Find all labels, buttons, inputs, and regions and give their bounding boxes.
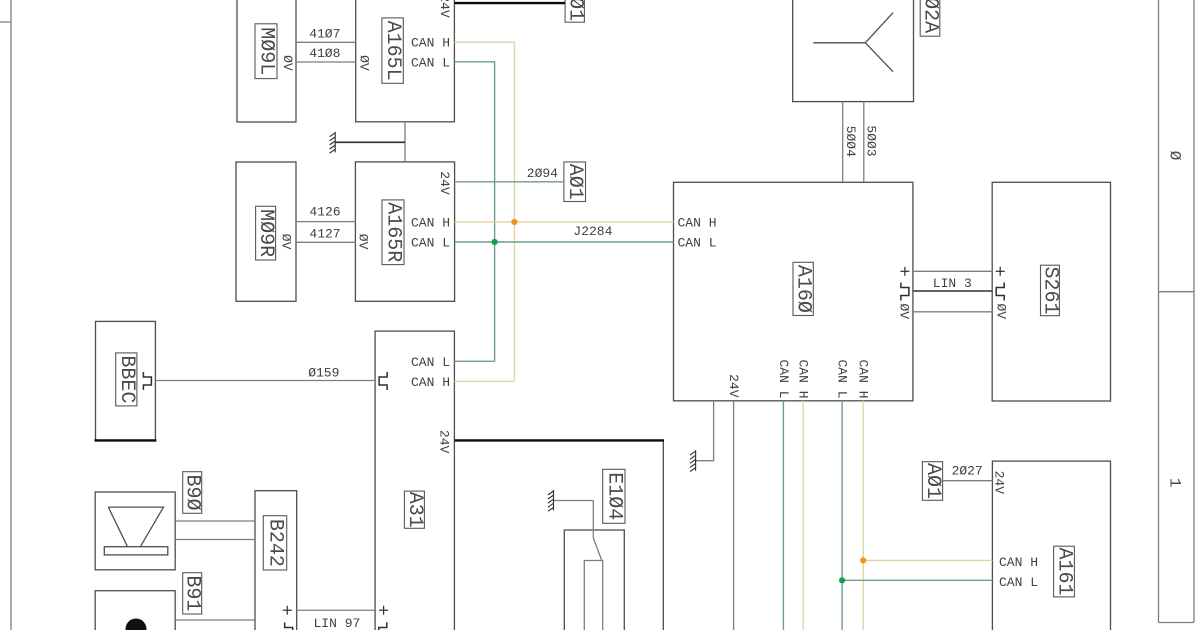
svg-text:24V: 24V: [726, 374, 741, 398]
svg-text:MØ9R: MØ9R: [254, 209, 277, 257]
wire 4127: [296, 241, 355, 243]
component A165R box: [355, 162, 454, 301]
B91 horn symbol filled circle: [126, 619, 147, 630]
wire A165L bottom to A165R top: [404, 122, 406, 162]
svg-text:2Ø94: 2Ø94: [527, 166, 558, 181]
wire CAN H A165L (yellow): [454, 42, 514, 381]
svg-text:A31: A31: [403, 492, 426, 528]
plus A31 LIN97: [379, 606, 388, 615]
svg-text:CAN H: CAN H: [411, 36, 450, 51]
label B90: [181, 472, 204, 514]
component B242 box: [255, 491, 297, 630]
svg-text:AØ1: AØ1: [921, 463, 944, 499]
label M09R: [254, 206, 277, 260]
svg-text:A161: A161: [1053, 548, 1076, 596]
antenna symbol: [813, 13, 893, 72]
component S261 box: [992, 182, 1110, 401]
plus A160: [900, 267, 909, 276]
plus B242: [283, 606, 292, 615]
svg-text:E1Ø4: E1Ø4: [602, 472, 625, 520]
svg-text:B91: B91: [181, 575, 204, 611]
wire 24V A165L to A01 (black): [454, 2, 565, 4]
svg-text:2Ø27: 2Ø27: [952, 464, 983, 479]
svg-text:B242: B242: [264, 519, 287, 567]
wire CAN H down 2 (yellow): [862, 401, 864, 630]
junction CAN L green dot: [492, 239, 498, 245]
svg-text:CAN L: CAN L: [835, 359, 850, 398]
speaker symbol B90: [104, 507, 168, 555]
svg-text:5ØØ4: 5ØØ4: [843, 126, 858, 157]
label E104: [602, 469, 625, 523]
junction CAN L A161 green dot: [839, 577, 845, 583]
ground stem E104: [554, 500, 594, 502]
wire 24V A31 drop: [662, 442, 664, 630]
junction CAN H orange dot: [511, 219, 517, 225]
svg-text:ØV: ØV: [280, 55, 295, 71]
wire 2094 A165R to A01 (teal): [455, 181, 564, 183]
svg-text:CAN L: CAN L: [999, 575, 1038, 590]
plus S261: [996, 267, 1005, 276]
wire CAN H to A161 (yellow): [863, 559, 992, 561]
svg-text:5ØØ3: 5ØØ3: [863, 125, 878, 156]
label BBEC: [115, 353, 138, 406]
ground symbol A160: [690, 450, 696, 471]
svg-text:CAN H: CAN H: [999, 555, 1038, 570]
label M09L: [255, 24, 278, 79]
component B91 box: [95, 591, 175, 630]
label B91: [181, 573, 204, 614]
svg-text:Ø: Ø: [1166, 151, 1184, 161]
switch blade E104: [593, 538, 602, 561]
wire 0V A160-S261: [913, 311, 992, 313]
svg-text:Ø159: Ø159: [308, 365, 339, 380]
svg-text:CAN L: CAN L: [411, 235, 450, 250]
wire 24V A160-S261: [913, 270, 992, 272]
wire 4126: [296, 221, 355, 223]
wire 4108: [296, 61, 356, 63]
pin bracket A160 LIN: [901, 283, 909, 301]
label A165R: [382, 200, 405, 265]
label A161: [1053, 546, 1076, 597]
wire LIN97 24V: [297, 609, 375, 611]
wire 5003: [863, 102, 865, 183]
wire CAN L down 2 (teal): [841, 401, 843, 630]
component E104 box: [564, 530, 624, 630]
svg-text:24V: 24V: [437, 430, 452, 454]
svg-text:MØ9L: MØ9L: [255, 27, 278, 75]
svg-text:ØV: ØV: [993, 303, 1008, 319]
svg-text:24V: 24V: [991, 471, 1006, 495]
svg-text:41Ø8: 41Ø8: [309, 46, 340, 61]
wire 24V A31 (black): [454, 439, 664, 441]
component A165L box: [356, 0, 455, 122]
page frame right column divider: [1159, 291, 1195, 293]
label B242: [263, 516, 286, 570]
wire CAN L to A161 (teal): [842, 579, 992, 581]
component A160 box: [674, 182, 913, 400]
svg-text:CAN L: CAN L: [411, 355, 450, 370]
component A161 box: [992, 461, 1110, 630]
component BBEC box: [96, 321, 156, 441]
svg-text:CAN L: CAN L: [678, 235, 717, 250]
connector A01 right: [921, 462, 944, 501]
wire 4107: [296, 41, 356, 43]
wire B90 to B242 upper: [175, 520, 255, 522]
svg-text:BBEC: BBEC: [115, 355, 138, 403]
svg-text:ØV: ØV: [357, 55, 372, 71]
page frame right column inner line: [1158, 0, 1160, 623]
component M09R box: [236, 162, 296, 301]
svg-text:41Ø7: 41Ø7: [309, 27, 340, 42]
label A31: [403, 491, 426, 528]
svg-text:A16Ø: A16Ø: [792, 265, 815, 313]
pin bracket A31 left: [379, 372, 387, 390]
page frame left border: [10, 0, 12, 630]
svg-text:A165L: A165L: [381, 21, 404, 81]
svg-text:CAN H: CAN H: [856, 359, 871, 398]
label S261: [1038, 265, 1061, 316]
connector A01 top (cut): [563, 0, 586, 22]
label A165L: [381, 18, 404, 83]
ground stem near A165: [335, 141, 405, 143]
connector A01 mid: [563, 162, 586, 202]
svg-text:CAN L: CAN L: [411, 55, 450, 70]
component A31 box: [375, 331, 454, 630]
svg-text:CAN H: CAN H: [411, 216, 450, 231]
junction CAN H A161 orange dot: [860, 557, 866, 563]
wire LIN 3: [913, 290, 992, 292]
ground symbol near A165: [330, 132, 336, 153]
svg-text:LIN 3: LIN 3: [933, 276, 972, 291]
wire 5004: [842, 102, 844, 183]
svg-text:CAN H: CAN H: [411, 375, 450, 390]
wire 2027: [943, 480, 993, 482]
svg-text:4126: 4126: [309, 205, 340, 220]
page frame right column outer line: [1193, 0, 1195, 623]
pin bracket A31 LIN97 (cut): [379, 623, 387, 630]
page frame right column bottom: [1159, 622, 1195, 624]
wire B91 to B242: [175, 619, 255, 621]
wire CAN H bus (yellow): [455, 221, 674, 223]
wire switch drop E104: [592, 501, 594, 539]
pin bracket B242 (cut): [285, 623, 293, 630]
svg-text:WØ2A: WØ2A: [919, 0, 942, 33]
wire 24V A160 down: [733, 401, 735, 630]
svg-text:CAN H: CAN H: [678, 216, 717, 231]
svg-text:CAN H: CAN H: [796, 359, 811, 398]
pin bracket S261 LIN: [996, 283, 1004, 301]
wire B90 to B242 lower: [175, 539, 255, 541]
svg-text:AØ1: AØ1: [563, 164, 586, 200]
page frame left tick: [0, 21, 11, 23]
antenna W02A box: [793, 0, 914, 102]
svg-text:ØV: ØV: [897, 303, 912, 319]
svg-text:24V: 24V: [437, 0, 452, 18]
svg-text:1: 1: [1166, 478, 1184, 488]
wire CAN L bus (teal): [455, 241, 674, 243]
heater element E104: [584, 561, 602, 630]
label W02A: [919, 0, 942, 36]
wire CAN L A165L (teal): [454, 62, 494, 362]
wire CAN H A31 (yellow): [454, 380, 514, 382]
svg-text:J2284: J2284: [573, 224, 612, 239]
ground symbol E104: [548, 490, 554, 511]
wire 0159: [155, 380, 375, 382]
wire CAN L down 1 (teal): [782, 401, 784, 630]
svg-text:CAN L: CAN L: [776, 359, 791, 398]
svg-text:24V: 24V: [437, 171, 452, 195]
svg-text:B9Ø: B9Ø: [181, 474, 204, 510]
wire CAN L A31 (teal): [454, 360, 494, 362]
svg-text:AØ1: AØ1: [563, 0, 586, 21]
svg-text:4127: 4127: [309, 226, 340, 241]
svg-text:ØV: ØV: [278, 234, 293, 250]
svg-text:LIN 97: LIN 97: [313, 616, 360, 630]
svg-text:ØV: ØV: [356, 234, 371, 250]
svg-text:S261: S261: [1038, 266, 1061, 314]
component M09L box: [237, 0, 296, 122]
component BBEC bottom thick edge: [95, 439, 157, 441]
wire CAN H down 1 (yellow): [802, 401, 804, 630]
component B90 box: [95, 492, 175, 570]
svg-text:A165R: A165R: [382, 202, 405, 262]
label A160: [792, 262, 815, 315]
pin bracket BBEC: [143, 372, 151, 390]
pin 0V A160 to ground: [696, 401, 714, 461]
